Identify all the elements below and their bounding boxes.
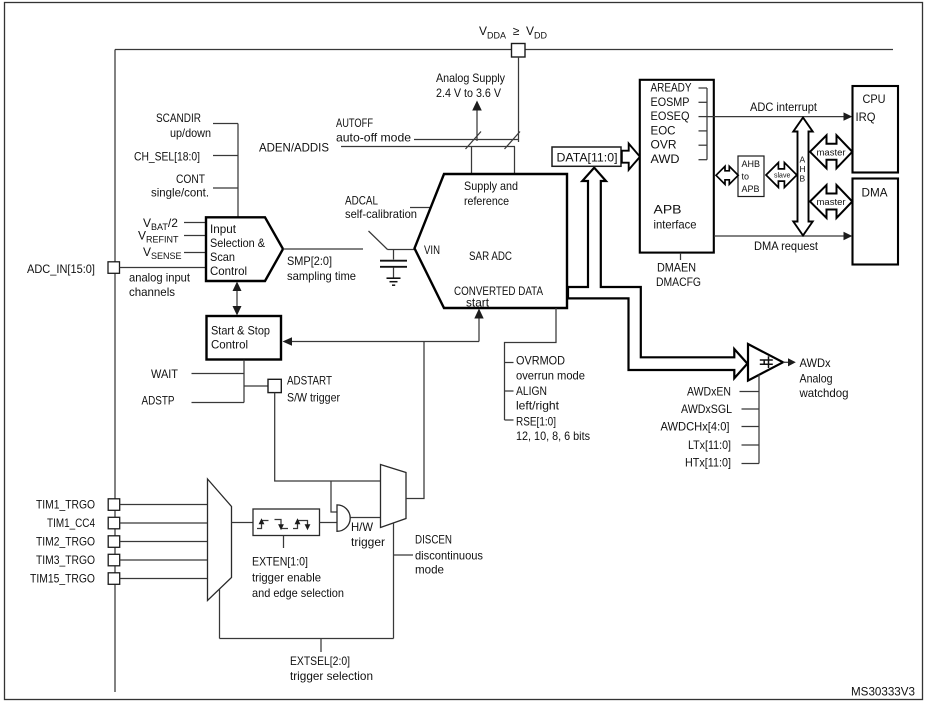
wire: WAIT line bbox=[192, 373, 245, 375]
svg-text:EXTEN[1:0]: EXTEN[1:0] bbox=[252, 555, 308, 569]
node: ADSTART S/W trigger square bbox=[268, 379, 281, 392]
block: edge detect EXTEN box bbox=[253, 509, 320, 536]
wire: below Start & Stop vertical bbox=[243, 360, 245, 403]
svg-text:discontinuous: discontinuous bbox=[415, 549, 483, 563]
wire: ALIGN tick bbox=[505, 390, 514, 392]
register: DATA[11:0] box bbox=[552, 147, 621, 166]
svg-text:self-calibration: self-calibration bbox=[345, 207, 417, 221]
wire: inner diagram left rail bbox=[114, 50, 116, 693]
svg-text:overrun mode: overrun mode bbox=[516, 369, 585, 383]
svg-text:OVRMOD: OVRMOD bbox=[516, 354, 565, 368]
wire: ADC interrupt line bbox=[707, 116, 845, 118]
svg-text:AHB: AHB bbox=[742, 159, 761, 169]
wire: DISCEN vertical bbox=[393, 523, 395, 639]
bus arrow: APB interface to bridge bbox=[716, 166, 738, 184]
svg-text:DISCEN: DISCEN bbox=[415, 533, 452, 547]
wire: config bracket from SAR ADC bottom bbox=[505, 308, 557, 420]
svg-text:IRQ: IRQ bbox=[856, 110, 876, 124]
wire: inner diagram top rail VDDA bbox=[115, 49, 893, 51]
wire: SCANDIR tick bbox=[213, 123, 238, 125]
icon: both edges bbox=[293, 522, 298, 529]
bus arrow: CPU master bbox=[810, 135, 852, 168]
svg-text:reference: reference bbox=[464, 194, 509, 208]
block: AHB to APB bridge bbox=[738, 156, 764, 197]
wire: DMA request line bbox=[714, 235, 845, 237]
svg-text:TIM15_TRGO: TIM15_TRGO bbox=[30, 572, 95, 586]
ground bbox=[387, 277, 401, 279]
wire: watchdog config vertical bbox=[758, 375, 760, 464]
svg-text:CONT: CONT bbox=[176, 172, 206, 186]
wire: branch to ADSTART square bbox=[244, 385, 268, 387]
svg-text:Control: Control bbox=[211, 338, 248, 352]
node: TIM3_TRGO connector bbox=[108, 554, 120, 566]
wire: VREFINT tick bbox=[184, 235, 205, 237]
wire: EXTSEL tick bbox=[320, 639, 322, 653]
svg-text:DATA[11:0]: DATA[11:0] bbox=[557, 151, 618, 165]
wire: ADCAL tick to SAR edge bbox=[410, 207, 431, 209]
icon: falling edge bbox=[275, 520, 282, 528]
svg-text:ADC interrupt: ADC interrupt bbox=[750, 100, 818, 114]
svg-text:Analog: Analog bbox=[800, 372, 833, 386]
wire: VSENSE tick bbox=[184, 252, 205, 254]
svg-text:left/right: left/right bbox=[516, 399, 560, 413]
svg-text:2.4 V to 3.6 V: 2.4 V to 3.6 V bbox=[436, 86, 501, 100]
svg-text:ADSTART: ADSTART bbox=[287, 374, 333, 388]
svg-text:Start & Stop: Start & Stop bbox=[211, 324, 270, 338]
block: Input Selection & Scan Control pentagon bbox=[206, 217, 283, 281]
svg-text:DMA request: DMA request bbox=[754, 239, 819, 253]
wire: ADSTP line bbox=[192, 402, 245, 404]
svg-text:channels: channels bbox=[129, 285, 175, 299]
wire: OVRMOD tick bbox=[505, 362, 514, 364]
svg-text:H: H bbox=[800, 164, 806, 174]
mux: trigger source selector bbox=[208, 479, 232, 601]
wire: config bus vertical into Input Selection bbox=[237, 124, 239, 218]
svg-text:SCANDIR: SCANDIR bbox=[156, 111, 201, 125]
svg-text:AWDxEN: AWDxEN bbox=[687, 385, 731, 399]
svg-text:Control: Control bbox=[210, 264, 247, 278]
svg-text:CPU: CPU bbox=[863, 92, 886, 106]
svg-text:ADEN/ADDIS: ADEN/ADDIS bbox=[259, 141, 329, 155]
svg-text:LTx[11:0]: LTx[11:0] bbox=[688, 438, 731, 452]
svg-text:single/cont.: single/cont. bbox=[151, 186, 209, 200]
wire: TIM input lines to mux1 bbox=[120, 504, 208, 506]
svg-text:trigger enable: trigger enable bbox=[252, 571, 321, 585]
svg-text:slave: slave bbox=[774, 173, 790, 180]
svg-text:SAR ADC: SAR ADC bbox=[469, 249, 512, 263]
block: SAR ADC converter bbox=[415, 174, 568, 308]
svg-text:APB: APB bbox=[654, 203, 682, 217]
block: DMA bbox=[853, 179, 899, 265]
svg-text:interface: interface bbox=[654, 218, 697, 232]
svg-text:to: to bbox=[742, 172, 750, 182]
svg-text:AWDx: AWDx bbox=[800, 356, 831, 370]
block: Start & Stop Control bbox=[207, 316, 282, 360]
wire: RSE tick bbox=[505, 419, 514, 421]
svg-text:analog input: analog input bbox=[129, 271, 191, 285]
wire: watchdog output arrow bbox=[783, 361, 789, 363]
icon: hysteresis symbol bbox=[760, 356, 773, 368]
wire: AWDCHx tick bbox=[742, 426, 760, 428]
svg-text:ADCAL: ADCAL bbox=[345, 194, 378, 208]
svg-text:trigger selection: trigger selection bbox=[290, 669, 373, 683]
comparator: AWDx analog watchdog bbox=[748, 344, 783, 381]
svg-text:AWDCHx[4:0]: AWDCHx[4:0] bbox=[661, 420, 730, 434]
svg-text:TIM1_CC4: TIM1_CC4 bbox=[47, 516, 95, 530]
wire: AWDxEN tick bbox=[740, 391, 760, 393]
svg-text:OVR: OVR bbox=[651, 138, 677, 152]
bus arrow: slave side bridge to AHB bbox=[766, 163, 797, 188]
svg-text:up/down: up/down bbox=[170, 126, 211, 140]
wire: ADSTART vertical down then right into mux2 bbox=[275, 393, 381, 481]
wire: LTx tick bbox=[742, 444, 760, 446]
wire: AWDxSGL tick bbox=[742, 408, 760, 410]
wire: gate output to mux2 bbox=[351, 517, 381, 519]
bus arrow: DMA master bbox=[810, 185, 852, 218]
wire: start arrow up into SAR ADC bbox=[478, 317, 480, 342]
svg-text:Analog Supply: Analog Supply bbox=[436, 71, 505, 85]
svg-text:HTx[11:0]: HTx[11:0] bbox=[685, 456, 731, 470]
svg-text:auto-off mode: auto-off mode bbox=[336, 131, 411, 145]
svg-text:CH_SEL[18:0]: CH_SEL[18:0] bbox=[134, 150, 200, 164]
svg-text:EOSMP: EOSMP bbox=[651, 95, 690, 109]
svg-text:ADC_IN[15:0]: ADC_IN[15:0] bbox=[27, 262, 95, 276]
wire: DMAEN tick below block bbox=[680, 253, 682, 260]
svg-text:TIM3_TRGO: TIM3_TRGO bbox=[36, 553, 95, 567]
svg-text:watchdog: watchdog bbox=[799, 386, 849, 400]
wire: mux2 output up to H/W trigger line bbox=[406, 342, 424, 499]
svg-text:trigger: trigger bbox=[351, 535, 385, 549]
node: ADC_IN connector square bbox=[108, 262, 120, 274]
svg-text:SMP[2:0]: SMP[2:0] bbox=[287, 254, 332, 268]
wire: slash mark on VDDA branch bbox=[505, 132, 521, 150]
svg-text:start: start bbox=[466, 296, 490, 310]
wire: DISCEN tick bbox=[394, 554, 414, 556]
wire: VBAT tick bbox=[184, 222, 205, 224]
svg-text:TIM1_TRGO: TIM1_TRGO bbox=[36, 498, 95, 512]
svg-text:AWDxSGL: AWDxSGL bbox=[681, 402, 732, 416]
wire: H/W trigger line into Start & Stop with arrow bbox=[290, 341, 479, 343]
svg-text:VIN: VIN bbox=[424, 243, 440, 257]
svg-text:ALIGN: ALIGN bbox=[516, 384, 547, 398]
wire: slash mark on analog supply line bbox=[466, 132, 482, 150]
svg-text:S/W trigger: S/W trigger bbox=[287, 391, 340, 405]
node VDDA: connector square on top rail bbox=[512, 44, 526, 58]
svg-text:A: A bbox=[800, 155, 806, 165]
wire: ADEN/ADDIS horizontal line bbox=[341, 146, 515, 148]
svg-text:APB: APB bbox=[742, 184, 760, 194]
svg-text:DMACFG: DMACFG bbox=[656, 275, 701, 289]
wire: analog supply arrow up bbox=[476, 108, 478, 141]
svg-text:Selection &: Selection & bbox=[210, 236, 265, 250]
wire: AUTOFF horizontal line bbox=[414, 139, 519, 141]
node: TIM2_TRGO connector bbox=[108, 536, 120, 548]
svg-text:master: master bbox=[817, 147, 846, 158]
wire: double arrow Input Selection to Start & Stop bbox=[236, 287, 238, 311]
wire: CH_SEL tick bbox=[213, 155, 238, 157]
wire: ADC_IN to Input Selection bbox=[120, 267, 206, 269]
wire: status flag bracket bbox=[706, 88, 708, 160]
node: TIM1_CC4 connector bbox=[108, 517, 120, 529]
icon: rising edge bbox=[257, 522, 262, 529]
wire: branch down into OR gate bbox=[331, 481, 337, 512]
svg-text:H/W: H/W bbox=[351, 520, 374, 534]
wire: converted data block path to analog watchdog with branch arrow up to DATA register bbox=[568, 168, 747, 379]
svg-text:EXTSEL[2:0]: EXTSEL[2:0] bbox=[290, 654, 350, 668]
svg-text:B: B bbox=[800, 174, 806, 184]
wire: mux1 output bbox=[232, 522, 254, 524]
svg-text:EOC: EOC bbox=[651, 123, 676, 137]
node: TIM1_TRGO connector bbox=[108, 499, 120, 511]
svg-text:Supply and: Supply and bbox=[464, 179, 518, 193]
svg-text:AUTOFF: AUTOFF bbox=[336, 116, 373, 130]
gate: H/W trigger OR gate bbox=[337, 505, 350, 531]
svg-text:DMAEN: DMAEN bbox=[657, 261, 696, 275]
block: APB interface / status flags bbox=[640, 80, 714, 253]
svg-text:DMA: DMA bbox=[862, 186, 888, 200]
wire: EXTEN tick down bbox=[283, 536, 285, 549]
wire: calibration switch diagonal bbox=[369, 231, 388, 250]
svg-text:MS30333V3: MS30333V3 bbox=[851, 685, 915, 699]
wire: supply drop to SAR ADC left bbox=[471, 147, 473, 175]
svg-text:mode: mode bbox=[415, 563, 444, 577]
svg-text:AWD: AWD bbox=[651, 152, 680, 166]
wire: supply drop to SAR ADC right bbox=[514, 147, 516, 175]
wire: CONT tick bbox=[213, 187, 238, 189]
wire: SMP sampling time output bbox=[283, 248, 363, 250]
svg-text:WAIT: WAIT bbox=[151, 367, 179, 381]
wire: edge box to gate bbox=[320, 522, 338, 524]
svg-text:and edge selection: and edge selection bbox=[252, 586, 344, 600]
svg-text:TIM2_TRGO: TIM2_TRGO bbox=[36, 535, 95, 549]
wire: DATA block arrow into APB interface bbox=[622, 144, 640, 170]
svg-text:12, 10, 8, 6 bits: 12, 10, 8, 6 bits bbox=[516, 429, 590, 443]
svg-text:EOSEQ: EOSEQ bbox=[651, 109, 690, 123]
svg-text:RSE[1:0]: RSE[1:0] bbox=[516, 415, 556, 429]
svg-text:AREADY: AREADY bbox=[651, 81, 692, 95]
block: CPU IRQ bbox=[853, 86, 899, 173]
svg-text:Scan: Scan bbox=[210, 250, 235, 264]
svg-text:sampling time: sampling time bbox=[287, 269, 356, 283]
bus arrow: AHB vertical bus bbox=[793, 118, 812, 236]
wire: HTx tick bbox=[742, 463, 760, 465]
mux: trigger gate selector mux2 bbox=[381, 465, 407, 528]
wire: switch node to VIN bbox=[388, 249, 415, 251]
wire: mux1 bottom vertical bbox=[219, 589, 221, 639]
capacitor: sampling cap bbox=[393, 250, 395, 260]
svg-text:Input: Input bbox=[210, 222, 237, 236]
node: TIM15_TRGO connector bbox=[108, 573, 120, 585]
svg-text:master: master bbox=[817, 197, 846, 208]
wire: EXTSEL bracket bbox=[220, 638, 394, 640]
wire: VDDA vertical from square to supply lines bbox=[518, 57, 520, 142]
svg-text:ADSTP: ADSTP bbox=[142, 394, 175, 408]
